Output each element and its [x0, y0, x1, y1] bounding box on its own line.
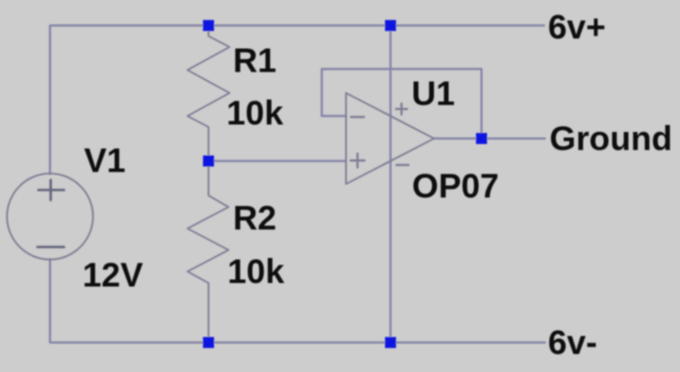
node junction bottom supply: [385, 337, 396, 348]
svg-text:V1: V1: [84, 142, 126, 180]
voltage source V1 circle: [7, 174, 93, 260]
wire non-inverting input: [209, 160, 347, 162]
op-amp non-inverting input plus marker: [351, 154, 365, 168]
svg-text:Ground: Ground: [550, 120, 673, 158]
op-amp positive supply plus marker: [396, 104, 407, 115]
resistor R2: [188, 161, 229, 343]
node junction top supply: [385, 20, 396, 31]
op-amp U1 triangle: [346, 93, 434, 184]
op-amp negative supply minus marker: [397, 164, 409, 166]
svg-text:U1: U1: [412, 75, 455, 113]
wire left bottom: [50, 259, 545, 343]
wire middle vertical supply: [389, 26, 391, 343]
resistor R1: [188, 26, 230, 162]
wire feedback loop: [322, 69, 482, 139]
V1 plus marker: [39, 180, 65, 200]
svg-text:6v-: 6v-: [548, 324, 597, 362]
svg-text:10k: 10k: [228, 253, 285, 291]
wire top rail 6v+: [50, 26, 544, 175]
node junction bottom R2: [203, 337, 214, 348]
V1 minus marker: [38, 246, 65, 249]
svg-text:10k: 10k: [227, 95, 284, 133]
node junction output: [476, 133, 487, 144]
svg-text:R2: R2: [233, 200, 276, 238]
svg-text:12V: 12V: [83, 257, 144, 295]
op-amp inverting input minus marker: [351, 116, 364, 118]
svg-text:R1: R1: [233, 42, 276, 80]
node junction top R1: [203, 20, 214, 31]
wire output to Ground: [434, 137, 545, 139]
svg-text:OP07: OP07: [412, 168, 499, 206]
svg-text:6v+: 6v+: [548, 9, 606, 47]
node junction mid divider: [203, 156, 214, 167]
